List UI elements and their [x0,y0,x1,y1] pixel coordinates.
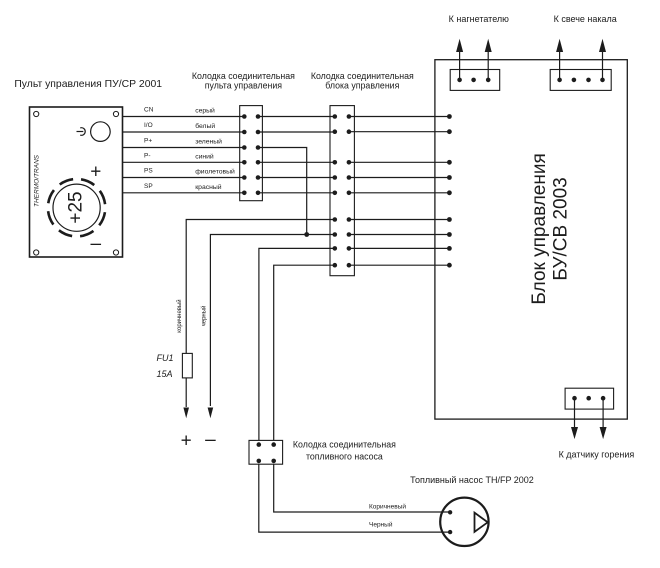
block pin SP [447,190,452,195]
control block label [529,153,572,304]
connector X1 pin pair PS [242,175,260,180]
glow plug connector pin 1 [557,78,562,83]
connector X2 pin pair I/O [333,129,352,134]
wire CN [122,116,244,118]
indicator circle [91,122,111,142]
blower connector pin 1 [457,78,462,83]
wire X2 to block brown supply [349,219,450,221]
block pin P- [447,160,452,165]
wire X2 to block PS [349,177,450,179]
svg-text:Колодка соединительная: Колодка соединительная [311,71,414,81]
block pin brown supply [447,217,452,222]
fuel pump connector pins top row [257,442,277,447]
block pin pump black [447,263,452,268]
svg-text:FU1: FU1 [157,353,174,363]
svg-text:коричневый: коричневый [176,299,183,332]
fuse FU1 body [182,353,192,378]
wire PS X1-X2 [258,177,335,179]
connector X2 pin pair pump brown [333,246,352,251]
svg-text:фиолетовый: фиолетовый [195,168,235,176]
svg-text:I/O: I/O [144,122,153,129]
svg-text:Коричневый: Коричневый [369,503,406,511]
block pin I/O [447,129,452,134]
block pin pump brown [447,246,452,251]
connector X2 pin pair PS [333,175,352,180]
glow plug connector pin 4 [600,78,605,83]
connector X1 pin pair P- [242,160,260,165]
glow plug connector pin 3 [586,78,591,83]
svg-text:+: + [90,162,101,183]
svg-text:SP: SP [144,183,153,190]
connector X2 body [330,106,354,276]
mounting hole top-left [34,111,39,116]
fuel pump connector body [249,440,283,464]
wire I/O X1-X2 [258,131,335,133]
control panel ПУ/СР 2001 box [30,107,123,257]
wire P- X1-X2 [258,161,335,163]
wire pump black lower [259,464,450,532]
svg-text:белый: белый [195,122,215,130]
connector X1 pin pair CN [242,114,260,119]
glow plug arrow 2 [602,51,604,80]
svg-text:Колодка соединительная: Колодка соединительная [192,71,295,81]
dial knob circle [53,184,100,231]
wire pump black branch [274,265,335,440]
wire I/O [122,131,244,133]
svg-text:К нагнетателю: К нагнетателю [449,14,509,24]
svg-text:зеленый: зеленый [195,138,222,146]
block pin CN [447,114,452,119]
block pin PS [447,175,452,180]
wire pump brown branch [259,248,335,440]
flame sensor connector pin 2 [586,396,591,401]
svg-text:CN: CN [144,107,154,114]
blower connector pin 3 [486,78,491,83]
connector X2 pin pair black supply [333,232,352,237]
svg-text:красный: красный [195,183,222,191]
connector X2 pin pair pump black [333,263,352,268]
svg-text:серый: серый [195,107,215,115]
flame sensor connector pin 3 [601,396,606,401]
mounting hole bottom-left [34,250,39,255]
svg-text:черный: черный [201,306,208,327]
glow plug arrow 1 [559,51,561,80]
fuel pump connector pins bottom row [257,459,277,464]
svg-text:Колодка соединительная: Колодка соединительная [293,440,396,450]
mounting hole bottom-right [113,250,118,255]
svg-text:Черный: Черный [369,521,393,529]
svg-text:синий: синий [195,152,214,160]
wire SP X1-X2 [258,192,335,194]
connector X1 pin pair SP [242,191,260,196]
svg-text:THERMO/TRANS: THERMO/TRANS [34,154,41,207]
mounting hole top-right [113,111,118,116]
glow plug connector body [550,70,611,91]
svg-text:Пульт управления ПУ/СР 2001: Пульт управления ПУ/СР 2001 [14,79,162,90]
wire X2 to block I/O [349,131,450,133]
wire P+ bypass [258,148,307,235]
svg-text:Блок управления: Блок управления [529,153,550,304]
svg-text:Топливный насос TH/FP 2002: Топливный насос TH/FP 2002 [410,475,534,485]
blower connector body [450,70,500,91]
connector X1 body [240,106,263,201]
wire SP [122,192,244,194]
svg-text:К свече накала: К свече накала [554,14,617,24]
svg-text:PS: PS [144,168,153,175]
svg-text:пульта управления: пульта управления [205,81,282,91]
fuel pump pin brown [448,510,452,514]
svg-text:–: – [91,234,102,255]
wire PS [122,177,244,179]
flame sensor connector body [565,388,614,409]
blower connector pin 2 [471,78,476,83]
svg-text:P-: P- [144,152,151,159]
wire black supply [210,235,334,407]
connector X1 pin pair P+ [242,145,260,150]
wire X2 to block pump brown [349,247,450,249]
junction P+ [304,232,309,237]
glow plug connector pin 2 [572,78,577,83]
connector X2 pin pair CN [333,114,352,119]
blower arrow 1 [459,51,461,80]
connector X2 pin pair P- [333,160,352,165]
svg-text:К датчику горения: К датчику горения [559,450,635,460]
wire below fuse [185,378,187,407]
connector X2 pin pair brown supply [333,217,352,222]
flame sensor arrow 2 [602,398,604,428]
arrow head black [208,408,214,419]
wire X2 to block pump black [349,264,450,266]
connector X2 pin pair SP [333,191,352,196]
flame sensor connector pin 1 [572,396,577,401]
fuel pump pin black [448,530,452,534]
power symbol [77,128,86,136]
wire X2 to block black supply [349,234,450,236]
wire X2 to block P- [349,161,450,163]
wire pump brown lower [274,464,450,512]
control block БУ/СВ 2003 box [435,60,627,419]
svg-text:–: – [205,430,216,451]
block pin black supply [447,232,452,237]
svg-text:БУ/СВ 2003: БУ/СВ 2003 [551,177,572,280]
wire P+ [122,147,244,149]
wire P- [122,161,244,163]
arrow head brown [183,408,189,419]
svg-text:блока управления: блока управления [325,81,399,91]
fuel pump body [440,498,488,546]
dial dashed ring [48,179,105,236]
svg-text:топливного насоса: топливного насоса [306,452,383,462]
svg-text:P+: P+ [144,138,152,145]
blower arrow 2 [487,51,489,80]
svg-text:+: + [181,431,192,452]
wire brown supply [186,220,335,354]
svg-text:15A: 15A [157,369,173,379]
wire X2 to block SP [349,192,450,194]
connector X1 pin pair I/O [242,130,260,135]
wire CN X1-X2 [258,116,335,118]
svg-text:+25: +25 [66,191,87,223]
wire X2 to block CN [349,116,450,118]
flame sensor arrow 1 [574,398,576,428]
fuel pump triangle [475,513,488,532]
